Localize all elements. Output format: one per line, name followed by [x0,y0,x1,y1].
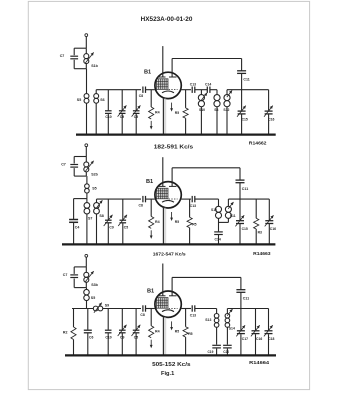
trimmer capacitor C9 [121,90,123,111]
wire terminal to tank [85,37,87,49]
capacitor C7 [73,157,75,164]
capacitor C13 [191,87,193,93]
wire S7 to ground bus [86,214,88,244]
inductor S7 [86,199,88,203]
svg-text:S9: S9 [105,304,109,308]
tank top wire [74,47,86,49]
trimmer capacitor C5 [135,90,137,111]
svg-text:C16: C16 [268,117,274,121]
svg-text:R14664: R14664 [249,360,270,365]
grid cap lead [162,264,164,296]
svg-text:C15: C15 [242,117,248,121]
variable inductor S12 [224,95,230,101]
tank top wire [74,266,86,268]
wire S8 bottom to ground bus [96,214,98,244]
wire terminal to tank [85,257,87,267]
svg-text:S6: S6 [100,98,104,102]
wire S5 to node [86,193,88,199]
svg-text:C20: C20 [223,350,229,354]
svg-text:R14662: R14662 [249,141,268,146]
anode lead to rail [171,168,173,187]
svg-text:505-152 Kc/s: 505-152 Kc/s [152,362,191,368]
svg-text:C10: C10 [105,336,111,340]
cathode bias arrow R5 [171,103,173,109]
svg-text:S5: S5 [91,296,95,300]
grid cap lead [162,46,164,77]
svg-text:C19: C19 [208,350,214,354]
svg-text:S10: S10 [211,208,217,212]
variable inductor S10 [200,90,202,95]
capacitor C10 [107,90,109,111]
trimmer capacitor C17 [240,309,242,331]
resistor R5 anode load [185,309,187,327]
anode component line [181,89,191,91]
resistor R4 [150,199,152,216]
variable inductor S1b [85,48,87,53]
wire S12 top to C16 [226,90,228,95]
resistor R5 anode load [185,90,187,108]
capacitor C14 [214,231,223,233]
wire S13 to C19 [216,327,218,344]
terminal input node circuit 1 [85,34,88,37]
svg-text:S1b: S1b [91,64,98,68]
svg-text:R5: R5 [188,332,192,336]
wire C13 to S10 [195,89,208,91]
terminal input node circuit 3 [85,254,88,257]
svg-text:C13: C13 [190,314,196,318]
svg-text:S12: S12 [223,108,229,112]
inductor S8 [94,203,100,209]
cathode lead to ground bus [163,208,167,245]
svg-text:C15: C15 [242,227,248,231]
svg-text:C6: C6 [89,336,93,340]
grid cap lead [162,157,164,186]
svg-text:R14663: R14663 [253,251,271,256]
resistor R4 [150,90,152,107]
svg-text:C4: C4 [75,225,80,229]
svg-text:C5: C5 [124,226,128,230]
wire S11 top to C16 [227,199,229,206]
capacitor C8 [142,196,144,202]
svg-text:S7: S7 [88,217,92,221]
wire S14 to C20 [226,327,228,344]
svg-text:C16: C16 [256,337,262,341]
variable inductor S3b [85,267,87,272]
wire terminal to tank [85,147,87,157]
svg-text:B1: B1 [146,179,153,185]
svg-text:S8: S8 [99,214,103,218]
wire S8 top to grid line [96,199,98,202]
ground bus circuit 1 [76,134,276,136]
svg-text:C13: C13 [190,204,196,208]
svg-text:1672-547 Kc/s: 1672-547 Kc/s [153,252,186,257]
svg-text:C13: C13 [190,83,196,87]
wire S5 to line [86,301,88,309]
capacitor C20 [223,344,232,346]
wire C13 to S10 [195,198,219,200]
wire C14 to S8 [210,89,217,91]
capacitor C11 [240,277,242,289]
capacitor C19 [212,344,221,346]
wire S6 bottom to ground bus [95,103,97,134]
trimmer capacitor C9 [107,199,109,220]
anode rail [172,167,240,169]
wire S9 to C10 [103,308,141,310]
anode rail [172,276,241,278]
svg-text:S3b: S3b [91,283,98,287]
variable inductor S9 [93,306,98,311]
resistor R4 [150,309,152,326]
wire tank to S5 [86,176,88,184]
svg-text:S5: S5 [77,98,81,102]
capacitor C11 [241,59,243,71]
svg-text:S5: S5 [92,186,96,190]
terminal input node circuit 2 [85,144,88,147]
svg-text:R2: R2 [63,331,68,335]
anode rail [172,58,242,60]
inductor S6 [94,94,99,99]
anode lead to rail [171,277,173,295]
capacitor C13 [191,305,193,311]
svg-text:Fig.1: Fig.1 [161,371,174,377]
ground bus circuit 2 [62,243,275,245]
cathode lead to ground bus [163,98,167,134]
cathode bias arrow R5 [171,212,173,218]
wire tank to S5 [86,69,88,94]
svg-text:C5: C5 [134,115,138,119]
capacitor C6 [87,309,89,330]
svg-text:C14: C14 [205,83,211,87]
capacitor C4 [73,199,75,220]
svg-text:B1: B1 [147,289,154,295]
svg-text:C8: C8 [139,94,143,98]
svg-text:S8: S8 [214,108,218,112]
svg-text:S14: S14 [229,327,235,331]
svg-text:C9: C9 [120,115,124,119]
trimmer capacitor C9 [121,309,123,330]
arrow below R4 [150,340,152,346]
svg-text:C10: C10 [105,115,111,119]
svg-text:C9: C9 [109,226,113,230]
capacitor C7 [73,48,75,55]
svg-text:C17: C17 [242,337,248,341]
inductor S13 [216,309,218,314]
anode component line [181,308,191,310]
svg-text:R4: R4 [155,330,160,334]
svg-text:C14: C14 [215,238,221,242]
resistor R3 [255,199,257,218]
svg-text:R3: R3 [258,230,262,234]
inductor S5 [85,184,90,189]
capacitor C8 [142,305,144,311]
cathode lead to ground bus [163,317,167,355]
svg-text:R4: R4 [155,220,160,224]
svg-text:HX523A-00-01-20: HX523A-00-01-20 [141,17,193,23]
capacitor C13 [191,196,193,202]
svg-text:C8: C8 [140,313,144,317]
arrow below R4 [150,121,152,127]
capacitor C8 [142,87,144,93]
svg-text:C16: C16 [270,227,276,231]
wire S14 top to C18 [226,309,228,314]
wire C13 to S13 [195,308,217,310]
trimmer capacitor C16 [268,199,270,220]
cathode bias arrow R5 [171,321,173,327]
tank top wire [74,156,86,158]
left line with R2 [72,308,93,310]
svg-text:C18: C18 [268,337,274,341]
svg-text:R4: R4 [155,111,160,115]
ground bus circuit 3 [65,354,276,356]
trimmer capacitor C15 [239,199,241,220]
resistor R2 [73,309,75,328]
capacitor C11 [239,168,241,180]
wire S11 bottom join [227,218,229,222]
wire S5 to ground bus [86,103,88,134]
svg-text:C7: C7 [60,54,65,58]
trimmer capacitor C5 [135,309,137,330]
trimmer capacitor C5 [122,199,124,220]
svg-text:C5: C5 [134,336,138,340]
inductor S8 [216,90,218,95]
wire S10 to C14 [218,218,220,231]
capacitor C7 [73,267,75,274]
anode lead to rail [171,59,173,78]
variable inductor S14 [225,314,230,319]
tube B1 circuit 2 [155,182,181,208]
svg-text:R5: R5 [175,330,179,334]
svg-text:S10: S10 [199,108,205,112]
svg-text:R5: R5 [175,111,179,115]
wire tank to S5 [86,288,88,290]
inductor S10 [218,199,220,206]
svg-text:C8: C8 [139,204,143,208]
inductor S5 [84,289,90,295]
trimmer capacitor C16 [268,90,270,111]
capacitor C14 [206,87,208,93]
trimmer capacitor C16 [255,309,257,331]
svg-text:182-591 Kc/s: 182-591 Kc/s [154,144,194,150]
trimmer capacitor C15 [241,90,243,111]
tank bottom wire [74,68,86,70]
svg-text:R5: R5 [175,220,179,224]
wire S6 top to grid line [95,90,97,94]
anode component line [181,198,191,200]
tube B1 circuit 1 [155,72,181,98]
arrow below R4 [150,230,152,236]
resistor R5 anode load [189,199,191,217]
svg-text:B1: B1 [144,70,151,76]
tank bottom wire [74,175,86,177]
variable inductor S11 [225,206,231,212]
wire node to C4 [74,198,87,200]
tube B1 circuit 3 [155,291,181,317]
trimmer capacitor C18 [268,309,270,331]
svg-text:C11: C11 [242,187,248,191]
svg-text:S11: S11 [230,214,236,218]
variable inductor S2b [85,157,87,162]
svg-text:C9: C9 [120,336,124,340]
svg-text:S13: S13 [205,318,211,322]
inductor S5 [84,94,89,99]
tank bottom wire [74,287,86,289]
svg-text:C7: C7 [63,273,68,277]
svg-text:C11: C11 [243,78,249,82]
svg-text:R5: R5 [192,223,196,227]
capacitor C10 [107,309,109,330]
svg-text:C11: C11 [243,296,249,300]
svg-text:S2b: S2b [91,173,98,177]
svg-text:C7: C7 [61,163,66,167]
